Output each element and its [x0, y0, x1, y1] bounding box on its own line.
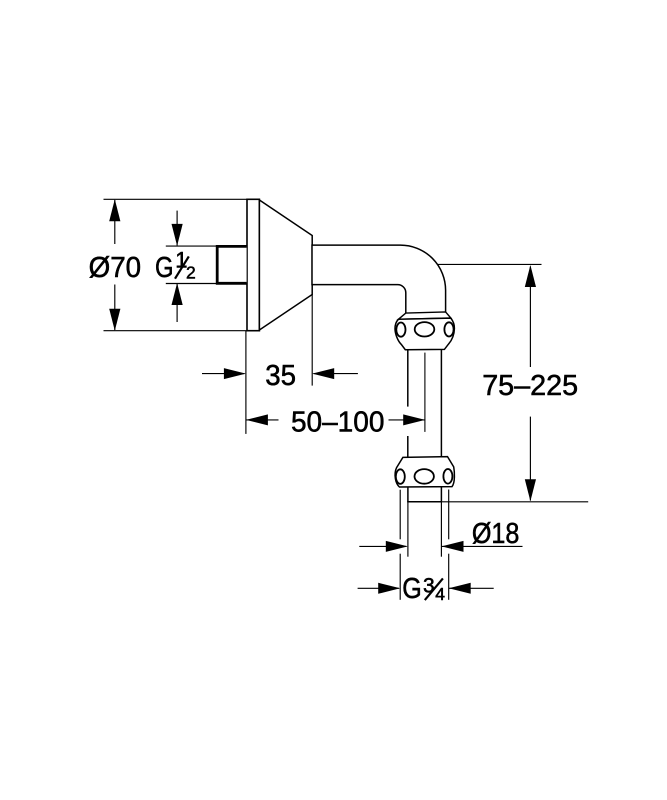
svg-text:75–225: 75–225 — [482, 370, 578, 402]
svg-text:50–100: 50–100 — [291, 406, 385, 438]
svg-text:Ø70: Ø70 — [89, 252, 142, 284]
dimension O18 left arrow — [359, 545, 406, 547]
extension line bottom of wall plate (O70 lower) — [104, 330, 260, 332]
dimension 35 left arrow — [202, 373, 245, 375]
dimension O18 right arrow — [442, 545, 523, 547]
threaded stub G1/2 — [217, 246, 246, 283]
dimension arrow G1/2 lower (up) — [176, 284, 178, 322]
nut N2 left knurl ellipse — [396, 469, 405, 484]
nut N1 right knurl ellipse — [444, 322, 453, 336]
reference line 75-225 bottom (outlet end) — [441, 501, 588, 503]
dimension G3/4 right arrow — [449, 587, 494, 589]
extension line G1/2 top — [166, 245, 220, 247]
svg-text:2: 2 — [186, 263, 196, 283]
middle pipe left edge (with gap for dimension) — [408, 350, 442, 458]
pipe axis extension line — [424, 353, 426, 432]
dimension arrow G1/2 upper (down) — [176, 211, 178, 246]
nut N1 body — [395, 318, 454, 350]
label G1/2 — [155, 247, 196, 284]
arrowhead O70 down — [109, 309, 120, 331]
dimension 35 right arrow — [314, 373, 358, 375]
arrowhead 75-225 down — [525, 479, 536, 501]
nut N1 left knurl ellipse — [396, 323, 405, 337]
dimension line O70 vertical — [114, 200, 116, 330]
nut N1 flare collar — [398, 312, 450, 319]
svg-text:35: 35 — [265, 360, 296, 392]
pipe with elbow — [312, 245, 446, 313]
nut N2 right knurl ellipse — [443, 469, 452, 484]
dimension G3/4 left arrow — [358, 587, 399, 589]
arrowhead 75-225 up — [525, 265, 536, 287]
nut N1 center knurl ellipse — [415, 322, 435, 336]
svg-text:Ø18: Ø18 — [472, 518, 520, 550]
dimension line 75-225 vertical — [529, 267, 531, 501]
nut N2 body — [395, 457, 454, 487]
svg-text:G: G — [155, 252, 174, 284]
label G3/4 — [402, 573, 445, 605]
extension line 35 right (cone tip) — [311, 295, 313, 386]
nut N2 center knurl ellipse — [415, 469, 434, 484]
extension lines G3/4 (outer pair, gap at O18 arrows) — [400, 490, 449, 600]
extension lines O18 (pipe edge pair) — [407, 502, 409, 557]
middle pipe right edge — [440, 350, 442, 458]
arrowhead O70 up — [109, 199, 120, 221]
extension line top of wall plate (O70 upper) — [104, 198, 260, 200]
wall plate (escutcheon, edge view) — [247, 199, 259, 330]
cone of wall union — [259, 200, 312, 330]
extension line 35 left (plate) — [245, 331, 247, 434]
svg-text:G: G — [402, 573, 422, 605]
dimension 50-100 right arrow (points right at pipe axis) — [389, 419, 426, 421]
reference line 75-225 top (pipe axis level) — [437, 263, 542, 265]
extension line G1/2 bottom — [166, 283, 220, 285]
dimension 50-100 left arrow (points left at plate line) — [246, 419, 279, 421]
outlet pipe below nut N2 — [407, 487, 441, 502]
